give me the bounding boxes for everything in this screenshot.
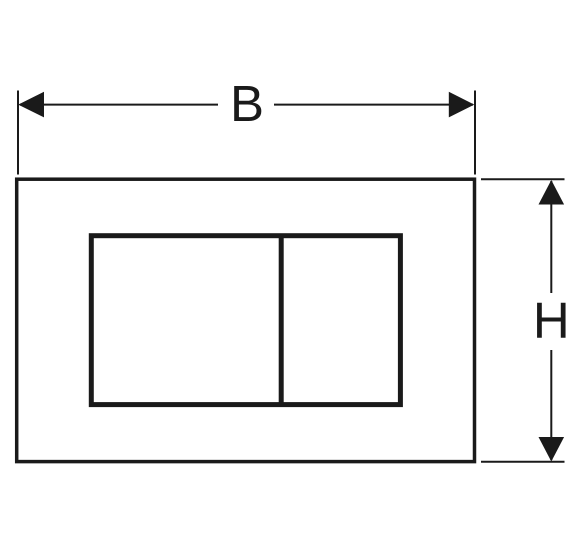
svg-text:B: B (230, 75, 264, 132)
svg-text:H: H (533, 292, 570, 349)
